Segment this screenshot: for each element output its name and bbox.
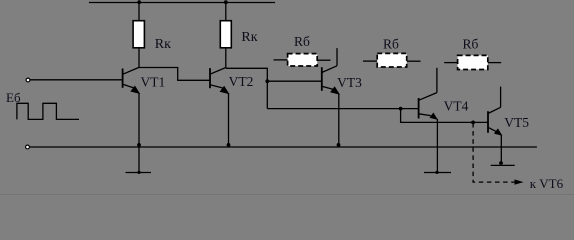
svg-text:Rб: Rб	[294, 34, 310, 49]
svg-text:Rб: Rб	[463, 37, 479, 52]
svg-text:к VT6: к VT6	[530, 176, 564, 191]
svg-text:Rк: Rк	[155, 37, 171, 52]
svg-text:Eб: Eб	[6, 90, 21, 105]
svg-text:VT3: VT3	[337, 75, 362, 90]
svg-text:Rк: Rк	[241, 30, 257, 45]
svg-text:VT1: VT1	[141, 74, 166, 89]
svg-text:VT2: VT2	[229, 74, 254, 89]
svg-text:VT4: VT4	[444, 98, 469, 113]
svg-text:Rб: Rб	[383, 36, 399, 51]
svg-text:VT5: VT5	[504, 115, 529, 130]
